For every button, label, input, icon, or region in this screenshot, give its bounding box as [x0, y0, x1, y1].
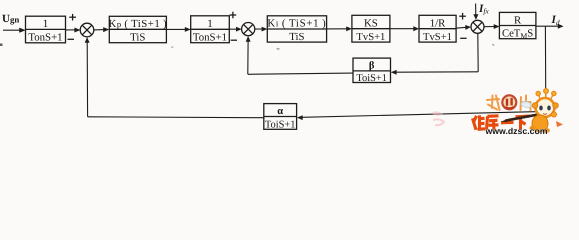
wire 1/R block to summing junction 3	[456, 25, 471, 30]
block filter 1/(TonS+1) first	[26, 16, 66, 43]
scan speckle under Kp block	[171, 46, 174, 48]
wire junction 3 down to current feedback line	[477, 33, 479, 72]
minus sign at junction 3	[460, 37, 466, 39]
block thyristor KS/(TvS+1)	[352, 15, 390, 42]
block motor R/(CeTMS)	[499, 12, 536, 38]
watermark mascot body	[530, 112, 564, 133]
wire thyristor to 1/R block	[390, 26, 419, 31]
svg-text:TiS: TiS	[289, 31, 304, 43]
block ACR Ki(TiS+1)/TiS	[267, 16, 326, 42]
wei	[473, 118, 477, 130]
wire junction1 to ASR block	[94, 27, 109, 32]
svg-text:1/R: 1/R	[430, 17, 446, 29]
wire block2 to summing junction 2	[229, 27, 241, 32]
svg-text:1: 1	[207, 18, 213, 30]
wire speed feedback right segment into alpha block	[297, 111, 546, 120]
wire ASR to filter block 2	[166, 27, 190, 32]
scan speckle below junction 3	[492, 44, 495, 46]
watermark pencil dark stroke	[506, 113, 549, 121]
wire junction2 to ACR block	[255, 27, 268, 32]
plus sign at junction 3	[459, 13, 466, 20]
svg-text:β: β	[369, 61, 375, 72]
plus sign at junction 2	[230, 12, 237, 19]
watermark char pian (white/orange)	[521, 96, 531, 111]
summing junction 2	[242, 23, 255, 36]
wire current feedback right segment into beta block	[391, 70, 478, 75]
summing junction 3	[471, 20, 484, 33]
watermark mascot wing	[521, 101, 532, 107]
block armature 1/R/(TvS+1)	[419, 15, 456, 42]
wire speed feedback left segment	[88, 116, 264, 119]
svg-text:ToiS+1: ToiS+1	[265, 120, 296, 131]
summing junction 1	[80, 23, 94, 37]
wire current feedback left segment	[248, 73, 353, 74]
svg-text:Ugn: Ugn	[2, 13, 19, 25]
block filter 1/(TonS+1) second	[191, 16, 230, 43]
svg-text:1: 1	[43, 18, 49, 30]
wire output Id with arrow	[536, 24, 564, 29]
scan speckle under ACR	[276, 48, 279, 50]
wire block1 to summing junction 1	[66, 28, 81, 33]
wire junction 3 to motor block	[484, 24, 500, 29]
yi (long stroke)	[501, 121, 514, 125]
ku	[487, 116, 488, 130]
svg-text:TvS+1: TvS+1	[423, 32, 452, 43]
svg-text:TiS: TiS	[130, 31, 145, 43]
watermark pink squiggle	[431, 111, 443, 116]
wire input to filter block	[3, 28, 26, 33]
watermark mascot head	[532, 98, 558, 117]
svg-text:α: α	[277, 106, 283, 117]
svg-text:TonS+1: TonS+1	[193, 31, 227, 43]
wire Ifx input down into junction 3	[473, 4, 478, 20]
svg-text:TonS+1: TonS+1	[28, 32, 62, 44]
svg-text:TvS+1: TvS+1	[356, 32, 385, 43]
watermark round emblem	[502, 95, 516, 109]
svg-text:KS: KS	[364, 17, 378, 29]
svg-text:ToiS+1: ToiS+1	[356, 73, 387, 84]
watermark text weikuyixia (red)	[473, 115, 530, 130]
watermark mascot crown	[536, 89, 556, 99]
svg-text:CeTMS: CeTMS	[502, 28, 533, 41]
wire current feedback up into junction 2	[246, 36, 251, 74]
minus sign at junction 1	[68, 38, 75, 40]
watermark mascot arm stroke	[534, 112, 551, 130]
svg-text:R: R	[514, 14, 522, 26]
wire ACR to thyristor block	[327, 26, 352, 31]
svg-text:Kp ( TiS+1 ): Kp ( TiS+1 )	[109, 18, 168, 30]
scan speckle left edge	[0, 44, 3, 47]
block current feedback beta/(ToiS+1)	[353, 58, 391, 82]
wire feedback tap vertical from output	[544, 26, 546, 111]
watermark char wo (white/orange)	[487, 96, 500, 111]
block ASR Kp(TiS+1)/TiS	[109, 16, 166, 42]
wire speed feedback up into junction 1	[85, 37, 90, 117]
block speed feedback alpha/(ToiS+1)	[264, 104, 297, 130]
minus sign at junction 2	[231, 39, 237, 41]
xia	[516, 115, 530, 119]
plus sign at junction 1	[69, 14, 76, 21]
svg-text:www.dzsc.com: www.dzsc.com	[485, 126, 548, 136]
svg-text:Ki ( TiS+1 ): Ki ( TiS+1 )	[267, 18, 326, 30]
